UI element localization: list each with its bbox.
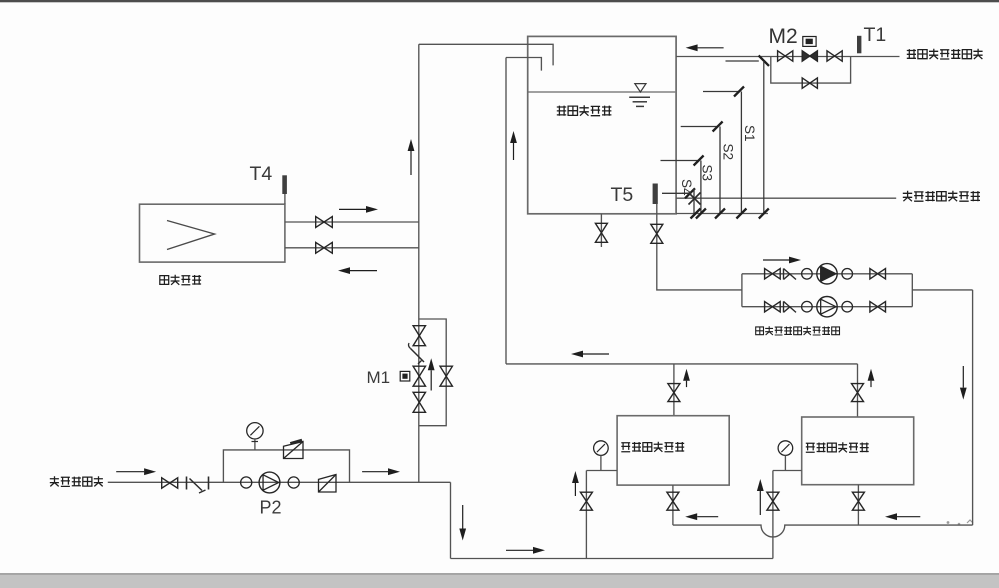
valve circ top inlet bbox=[765, 269, 781, 279]
arrow up unit2 outlet bbox=[868, 369, 875, 387]
wire main riser bbox=[418, 44, 420, 482]
reference drop at return bbox=[726, 61, 769, 219]
valve M2-left bbox=[778, 51, 793, 61]
label T1 bbox=[864, 24, 887, 46]
strainer above M1 bbox=[409, 343, 425, 364]
watermark dots bbox=[947, 520, 973, 525]
gauge P2 bbox=[247, 423, 263, 450]
wire circ top branch bbox=[742, 273, 912, 275]
arrow right after P2 bbox=[362, 468, 400, 475]
sensor S4 arm bbox=[662, 188, 695, 198]
label 生活热水箱 bbox=[557, 105, 612, 115]
heat pump unit 1 box bbox=[617, 416, 729, 485]
flange circ top right bbox=[842, 269, 853, 280]
arrow left bottom ports 1 bbox=[685, 513, 718, 520]
wire unit2 inlet stub bbox=[773, 470, 802, 472]
valve unit2 outlet bbox=[852, 384, 864, 402]
svg-text:S4: S4 bbox=[679, 179, 694, 196]
arrow right cold supply bbox=[116, 468, 156, 475]
valve unit1 inlet bbox=[580, 492, 592, 510]
sensor S4 crossing mark bbox=[689, 193, 701, 205]
check valve circ bottom bbox=[784, 301, 797, 312]
arrow down on drop bbox=[459, 505, 466, 541]
valve on M2 bypass bbox=[802, 78, 817, 88]
sensor S2 drop bbox=[715, 127, 725, 219]
sensor S3 drop bbox=[696, 161, 706, 219]
label 电加热器 bbox=[160, 275, 201, 285]
arrow up unit1 outlet bbox=[683, 369, 690, 387]
wire circ pump outlet bbox=[912, 289, 972, 291]
arrow up unit1 inlet bbox=[572, 471, 579, 496]
valve unit1 outlet bbox=[668, 384, 680, 402]
M1 bypass loop bbox=[419, 319, 446, 426]
label T5 bbox=[611, 184, 634, 206]
tick at return pipe bbox=[759, 56, 769, 66]
label P2 bbox=[260, 498, 282, 518]
pump P-top bbox=[817, 264, 837, 284]
M2 bypass loop bbox=[771, 57, 851, 84]
wire unit2 outlet pipe bbox=[857, 364, 859, 417]
wire unit1 inlet stub bbox=[586, 470, 617, 472]
svg-text:T4: T4 bbox=[250, 163, 273, 185]
svg-text:T5: T5 bbox=[611, 184, 634, 206]
valve above M1 bbox=[413, 326, 425, 346]
tank drain pipe bbox=[600, 214, 602, 247]
sensor S3 arm bbox=[661, 156, 704, 166]
valve on heater bottom pipe bbox=[316, 242, 333, 253]
arrow left bottom ports 2 bbox=[885, 513, 920, 520]
valve circ bottom inlet bbox=[765, 302, 781, 312]
wire unit1 inlet drop bbox=[585, 471, 587, 559]
arrow right above heater top pipe bbox=[339, 206, 378, 213]
valve unit2 inlet bbox=[767, 492, 779, 510]
heating element zigzag bbox=[167, 221, 215, 250]
flange P2 left bbox=[241, 477, 252, 488]
svg-text:T1: T1 bbox=[864, 24, 887, 46]
svg-text:M2: M2 bbox=[769, 25, 798, 48]
sensor S2 arm bbox=[681, 122, 723, 132]
label 生活热水回水管 bbox=[907, 49, 983, 59]
valve below M1 bbox=[413, 392, 425, 412]
water level symbol bbox=[629, 84, 650, 107]
flange circ bottom left bbox=[802, 301, 813, 312]
P2 bypass loop bbox=[223, 450, 349, 482]
wire drop to bottom main bbox=[450, 482, 452, 558]
tank water level line bbox=[529, 91, 676, 93]
arrow left on return pipe bbox=[686, 44, 724, 51]
label M2 bbox=[769, 25, 798, 48]
wire heat pump outlet header bbox=[506, 363, 858, 365]
wire unit2 bottom pipe bbox=[857, 485, 859, 525]
check valve on P2 main bbox=[319, 475, 337, 493]
label M1 bbox=[367, 368, 391, 387]
arrow up on hp return riser bbox=[510, 131, 517, 160]
sensor S4 drop bbox=[691, 189, 701, 219]
wire circ bottom branch bbox=[742, 306, 912, 308]
sensor T1 well bbox=[857, 36, 861, 54]
valve on T5 drain bbox=[651, 224, 663, 243]
motorized valve M1 bbox=[400, 366, 425, 386]
valve on heater top pipe bbox=[316, 217, 333, 228]
svg-text:S1: S1 bbox=[742, 125, 757, 142]
motorized valve M2 bbox=[802, 37, 817, 62]
top border line bbox=[0, 0, 999, 2]
arrow left below heater bottom pipe bbox=[338, 267, 377, 274]
valve on M1 bypass bbox=[440, 366, 452, 386]
bottom gray band bbox=[0, 573, 999, 588]
T5 drain pipe to pumps bbox=[657, 204, 742, 290]
flange circ bottom right bbox=[842, 301, 853, 312]
valve on tank drain bbox=[595, 223, 607, 242]
sensor T4 well bbox=[282, 175, 287, 204]
wire heat-pump return riser bbox=[505, 58, 507, 364]
arrow right bottom main bbox=[506, 547, 545, 554]
circ pump loop left bbox=[741, 274, 743, 307]
label 冷水供水管 bbox=[50, 476, 103, 486]
electric heater 电加热器 bbox=[140, 204, 285, 262]
arrow left on header bbox=[571, 351, 609, 358]
arrow right above pump branch bbox=[763, 257, 801, 264]
wire unit1 bottom pipe bbox=[672, 485, 674, 525]
label 生活热水一次循环泵 bbox=[756, 326, 840, 335]
wire right downcomer bbox=[972, 290, 974, 525]
valve cold supply bbox=[162, 478, 178, 488]
label 热泵热水机组 unit2 bbox=[806, 442, 869, 452]
svg-text:M1: M1 bbox=[367, 368, 391, 387]
wire unit2 inlet drop bbox=[772, 471, 774, 559]
heat pump unit 2 box bbox=[802, 417, 914, 485]
valve circ top outlet bbox=[870, 269, 886, 279]
label S3 bbox=[700, 165, 715, 182]
wire heater top pipe bbox=[285, 221, 419, 223]
pump P2 bbox=[259, 472, 280, 493]
wire tank inlet from riser bbox=[419, 44, 553, 65]
label S4 bbox=[679, 179, 694, 196]
flange circ top left bbox=[802, 269, 813, 280]
wire heater bottom pipe bbox=[285, 247, 419, 249]
check valve on P2 bypass bbox=[284, 440, 304, 458]
wire cold water supply pipe bbox=[108, 481, 451, 483]
wire tank inlet from heat-pump header bbox=[506, 58, 541, 71]
wire hot water return pipe bbox=[676, 56, 899, 58]
label S1 bbox=[742, 125, 757, 142]
label 生活热水供水管 bbox=[903, 191, 980, 201]
strainer cold supply bbox=[187, 477, 209, 494]
label 热泵热水机组 unit1 bbox=[621, 442, 684, 452]
arrow up beside M1 bbox=[428, 358, 435, 390]
arrow down right downcomer bbox=[960, 366, 967, 400]
svg-text:P2: P2 bbox=[260, 498, 282, 518]
tank 生活热水箱 bbox=[528, 36, 676, 213]
valve circ bottom outlet bbox=[870, 302, 886, 312]
svg-text:S2: S2 bbox=[721, 144, 736, 161]
sensor S1 drop bbox=[736, 92, 746, 219]
arrow up unit2 inlet bbox=[757, 479, 764, 515]
wire hot water supply pipe bbox=[676, 197, 896, 199]
wire tank bottom extension bbox=[676, 213, 768, 215]
sensor S1 arm bbox=[703, 87, 744, 97]
label S2 bbox=[721, 144, 736, 161]
label T4 bbox=[250, 163, 273, 185]
arrow up on riser bbox=[408, 139, 415, 175]
circ pump loop right bbox=[911, 274, 913, 307]
svg-text:S3: S3 bbox=[700, 165, 715, 182]
sensor T5 well bbox=[653, 184, 658, 205]
valve unit2 bottom bbox=[852, 492, 864, 510]
gauge unit2 bbox=[778, 441, 793, 471]
wire bottom ports line with bridge bbox=[673, 525, 973, 537]
flange P2 right bbox=[288, 477, 299, 488]
wire bottom main bbox=[451, 558, 773, 560]
valve unit1 bottom bbox=[667, 492, 679, 510]
wire unit1 outlet pipe bbox=[673, 364, 675, 416]
pump P-bottom bbox=[817, 297, 837, 317]
valve M2-right bbox=[827, 51, 842, 61]
check valve circ top bbox=[784, 269, 797, 280]
gauge unit1 bbox=[594, 441, 609, 471]
